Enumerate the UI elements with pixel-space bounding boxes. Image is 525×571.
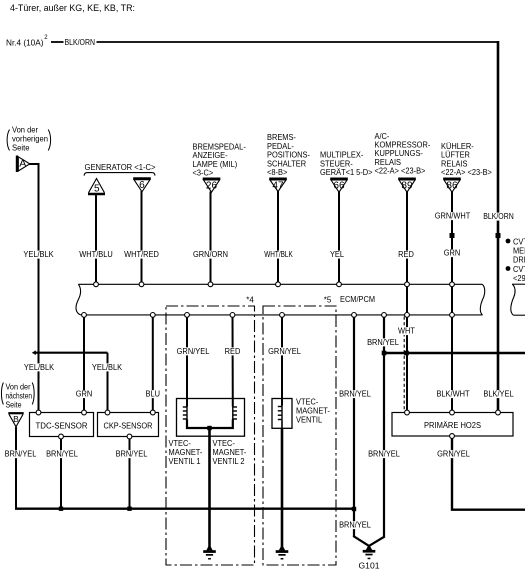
svg-text:WHT/BLK: WHT/BLK [264, 250, 293, 259]
svg-text:*5: *5 [324, 296, 332, 305]
pin ECM bottom BLK/WHT [450, 313, 455, 318]
primary HO2S box [392, 413, 513, 437]
label GRN/YEL (VTEC solenoid) [267, 347, 301, 355]
svg-text:BRN/YEL: BRN/YEL [5, 450, 37, 459]
wire: BRN/YEL thick horizontal to right edge [384, 352, 525, 355]
svg-text:GENERATOR <1-C>: GENERATOR <1-C> [85, 163, 156, 172]
svg-text:RED: RED [225, 347, 241, 356]
wire: YEL/BLK down to TDC-sensor pin [38, 353, 40, 413]
wire: YEL/BLK from flag A down [30, 163, 39, 165]
pin ECM bottom GRN/YEL 2 [280, 313, 285, 318]
wire: BLU to CKP sensor [152, 315, 154, 413]
svg-text:4-Türer, außer KG, KE, KB, TR:: 4-Türer, außer KG, KE, KB, TR: [10, 3, 135, 14]
note: CVT bullet list (clipped at edge) [506, 239, 511, 244]
svg-text:RED: RED [398, 250, 414, 259]
wire: WHT/BLU [95, 194, 97, 284]
svg-text:BRN/YEL: BRN/YEL [368, 450, 400, 459]
wire: valve coils to common ground [187, 420, 233, 429]
svg-text:MEN: MEN [513, 247, 525, 256]
label GRN/YEL (VTEC 1) [176, 347, 210, 355]
note: Von der naechsten Seite [1, 383, 3, 405]
wire: BLK/ORN horizontal to right edge [97, 41, 499, 43]
svg-text:KUPPLUNGS-: KUPPLUNGS- [375, 149, 424, 158]
pin ECM bottom WHT [405, 313, 410, 318]
svg-text:BLU: BLU [146, 390, 161, 399]
svg-text:BREMS-: BREMS- [267, 133, 296, 142]
TDC sensor box [30, 413, 94, 437]
svg-text:Nr.4 (10A): Nr.4 (10A) [6, 38, 44, 47]
pin HO2S BLK/YEL [496, 410, 501, 415]
label YEL/BLK (TDC branch) [23, 363, 55, 371]
ECM/PCM band right break squiggle [480, 284, 484, 315]
svg-text:<8-B>: <8-B> [267, 168, 288, 177]
flag A (from previous page) [16, 156, 18, 173]
wire: RED through band / WHT to HO2S [406, 284, 408, 412]
wire: VTEC valves ground drop [208, 428, 211, 548]
label RED [397, 251, 414, 259]
svg-text:GRN: GRN [444, 249, 461, 258]
label GRN/WHT [434, 212, 471, 220]
label YEL/BLK (CKP branch) [91, 363, 123, 371]
svg-text:POSITIONS-: POSITIONS- [267, 151, 310, 160]
svg-text:KÜHLER-: KÜHLER- [441, 142, 474, 151]
svg-text:TDC-SENSOR: TDC-SENSOR [36, 421, 88, 430]
terminal 6 (generator) [133, 177, 151, 180]
pin ECM top WHT/RED [139, 282, 144, 287]
terminal 89 (A/C compressor clutch relay) [398, 178, 416, 181]
svg-text:*4: *4 [246, 296, 254, 305]
svg-text:VENTIL 1: VENTIL 1 [169, 457, 202, 466]
label GRN/ORN [192, 251, 229, 259]
wire: GRN/YEL to VTEC valve 1 [186, 315, 188, 407]
ECM/PCM band left break squiggle [76, 284, 82, 315]
junction dot CKP ground [127, 507, 131, 511]
svg-text:GRN/WHT: GRN/WHT [435, 212, 471, 221]
in-line connector marker on GRN wire [450, 233, 455, 238]
svg-text:GERÄT<1 5-D>: GERÄT<1 5-D> [320, 168, 373, 177]
label WHT/BLU [79, 251, 114, 259]
svg-text:RELAIS: RELAIS [441, 159, 468, 168]
option box *5 (dash-dot) [263, 306, 336, 565]
ECM/PCM connector band top line [78, 283, 482, 285]
in-line connector marker on BLK/ORN [496, 233, 501, 238]
svg-text:Von der: Von der [6, 382, 31, 391]
wire: GRN to TDC sensor [83, 315, 85, 413]
wire: GRN/ORN [210, 192, 212, 285]
svg-text:vorherigen: vorherigen [12, 135, 48, 144]
svg-text:<22-A> <23-B>: <22-A> <23-B> [441, 168, 492, 177]
wire: BRN/YEL ground bus horizontal [15, 508, 354, 510]
label GRN (above ECM) [443, 249, 461, 257]
junction dot TDC ground [59, 507, 63, 511]
svg-text:PEDAL-: PEDAL- [267, 142, 294, 151]
pin ECM bottom BLU [150, 313, 155, 318]
pin ECM bottom BRN/YEL 2 [382, 313, 387, 318]
svg-text:KOMPRESSOR-: KOMPRESSOR- [375, 141, 431, 150]
label WHT/RED [123, 251, 159, 259]
svg-text:RELAIS: RELAIS [375, 158, 402, 167]
label YEL/BLK (flag A wire) [23, 251, 55, 259]
junction dot WHT x thick horizontal [404, 351, 409, 356]
label BRN/YEL (ground 2 lower) [367, 450, 400, 458]
label BRN/YEL (CKP) [115, 450, 148, 458]
pin ECM bottom GRN/YEL 1 [185, 313, 190, 318]
label BLU [145, 390, 161, 398]
svg-text:BRN/YEL: BRN/YEL [46, 450, 78, 459]
svg-text:BRN/YEL: BRN/YEL [339, 390, 371, 399]
label BRN/YEL (ground 2 upper) [366, 338, 399, 346]
pin ECM bottom RED [230, 313, 235, 318]
ECM/PCM band bottom line [82, 314, 483, 316]
svg-text:GRN/YEL: GRN/YEL [268, 347, 301, 356]
label RED (VTEC 2) [224, 347, 241, 355]
wire: BRN/YEL ECM ground 2 [383, 315, 385, 537]
pin CKP 1 [105, 410, 110, 415]
coil VTEC magnet valve 2 [232, 406, 234, 420]
svg-text:ANZEIGE-: ANZEIGE- [193, 151, 228, 160]
terminal 26 (MIL) [203, 178, 221, 181]
bracket under generator label [84, 173, 155, 176]
junction dot bus to G101 [352, 507, 356, 511]
svg-text:YEL: YEL [330, 250, 345, 259]
svg-text:GRN/ORN: GRN/ORN [193, 250, 228, 259]
pin TDC 2 [82, 410, 87, 415]
svg-text:nächsten: nächsten [6, 391, 33, 400]
pin ECM top YEL [337, 282, 342, 287]
svg-text:MAGNET-: MAGNET- [169, 448, 203, 457]
svg-text:VTEC-: VTEC- [213, 439, 236, 448]
svg-text:LAMPE (MIL): LAMPE (MIL) [193, 160, 238, 169]
svg-text:VENTIL 2: VENTIL 2 [213, 457, 246, 466]
svg-text:WHT/BLU: WHT/BLU [79, 250, 113, 259]
svg-text:STEUER-: STEUER- [320, 159, 353, 168]
wire: VTEC solenoid ground drop [281, 428, 284, 547]
label GRN/YEL (HO2S) [436, 450, 470, 458]
option box *4 (dash-dot) [166, 306, 255, 565]
pin HO2S WHT [405, 410, 410, 415]
svg-text:CVT: CVT [513, 238, 525, 247]
wire: YEL/BLK jog to CKP-sensor [35, 352, 108, 354]
terminal 86 (radiator fan relay) [443, 178, 461, 181]
svg-text:G101: G101 [359, 560, 380, 570]
terminal 47 (brake pedal position switch) [269, 178, 287, 181]
label BRN/YEL (TDC) [45, 450, 78, 458]
svg-text:YEL/BLK: YEL/BLK [24, 363, 55, 372]
pin ECM bottom BRN/YEL 1 [352, 313, 357, 318]
svg-text:BLK/ORN: BLK/ORN [65, 38, 96, 47]
CKP sensor box [98, 413, 159, 437]
label YEL [329, 251, 345, 259]
svg-text:PRIMÄRE HO2S: PRIMÄRE HO2S [424, 421, 481, 430]
wire: YEL [338, 192, 340, 285]
svg-text:LÜFTER: LÜFTER [441, 151, 470, 160]
coil VTEC solenoid valve [281, 406, 283, 421]
svg-text:<22-A> <23-B>: <22-A> <23-B> [375, 167, 426, 176]
label BLK/ORN (vertical wire) [482, 213, 514, 221]
svg-text:WHT: WHT [398, 327, 415, 336]
svg-text:Seite: Seite [12, 144, 30, 153]
svg-text:BLK/WHT: BLK/WHT [436, 390, 469, 399]
svg-text:MULTIPLEX-: MULTIPLEX- [320, 151, 364, 160]
dashed CVT variant line beside WHT wire [403, 317, 405, 412]
svg-text:Von der: Von der [12, 126, 38, 135]
wire: GRN/YEL from HO2S to right edge [452, 438, 525, 510]
coil VTEC magnet valve 1 [186, 406, 188, 420]
pin ECM top WHT/BLK [276, 282, 281, 287]
wire: BRN/YEL from flag B [15, 427, 17, 509]
wire: BRN/YEL from TDC sensor [60, 439, 62, 509]
label BLK/YEL [483, 390, 515, 398]
svg-text:WHT/RED: WHT/RED [124, 250, 159, 259]
svg-text:<29-: <29- [513, 274, 525, 283]
svg-text:GRN/YEL: GRN/YEL [437, 450, 470, 459]
label WHT/BLK [263, 251, 293, 259]
wire: BLK/ORN fuse feed horizontal [51, 41, 64, 43]
svg-text:YEL/BLK: YEL/BLK [92, 363, 123, 372]
pin HO2S BLK/WHT [450, 410, 455, 415]
junction dot BRN/YEL x thick horizontal [382, 351, 387, 356]
ground G101 [366, 547, 372, 551]
wire: RED [406, 192, 408, 285]
pin ECM top GRN [450, 282, 455, 287]
svg-text:VTEC-: VTEC- [169, 439, 192, 448]
svg-text:BRN/YEL: BRN/YEL [367, 338, 399, 347]
ground (VTEC solenoid valve) [279, 547, 285, 551]
svg-text:CVT: CVT [513, 265, 525, 274]
pin ECM top WHT/BLU [94, 282, 99, 287]
svg-text:Seite: Seite [6, 400, 22, 409]
svg-text:MAGNET-: MAGNET- [213, 448, 247, 457]
svg-text:VTEC-: VTEC- [296, 398, 319, 407]
wire: WHT/RED [141, 191, 143, 284]
svg-text:SCHALTER: SCHALTER [267, 159, 306, 168]
pin ECM top GRN/ORN [208, 282, 213, 287]
terminal 66 (multiplex control unit) [330, 178, 348, 181]
svg-text:<3-C>: <3-C> [193, 169, 214, 178]
wire: BRN/YEL ECM ground 1 [353, 315, 355, 537]
flag B (from next page) [8, 412, 23, 414]
svg-text:MAGNET-: MAGNET- [296, 407, 330, 416]
wire: GRN/WHT - GRN down to ECM [451, 192, 453, 413]
VTEC solenoid valve box [272, 399, 292, 429]
svg-text:DRE: DRE [513, 256, 525, 265]
wire: YEL/BLK down to CKP-sensor pin [107, 353, 109, 413]
svg-text:YEL/BLK: YEL/BLK [23, 250, 54, 259]
pin TDC 1 [36, 410, 41, 415]
svg-text:BLK/YEL: BLK/YEL [483, 390, 514, 399]
wire: BRN/YEL from CKP sensor [129, 439, 131, 509]
label GRN (TDC) [75, 390, 93, 398]
svg-text:GRN: GRN [76, 390, 93, 399]
wire: BLK/ORN vertical right side [497, 41, 500, 413]
label WHT [397, 327, 416, 335]
pin HO2S GRN/YEL [450, 434, 455, 439]
pin ECM top RED [405, 282, 410, 287]
svg-text:BRN/YEL: BRN/YEL [339, 521, 371, 530]
wire: GRN/YEL to VTEC solenoid valve [281, 315, 283, 406]
pin TDC ground [59, 434, 64, 439]
svg-text:BLK/ORN: BLK/ORN [483, 212, 514, 221]
svg-text:VENTIL: VENTIL [296, 416, 323, 425]
pin CKP ground [127, 434, 132, 439]
wire: RED to VTEC valve 2 [232, 315, 234, 407]
svg-text:BREMSPEDAL-: BREMSPEDAL- [193, 142, 247, 151]
junction dot valve common [207, 426, 211, 430]
svg-text:BRN/YEL: BRN/YEL [116, 450, 148, 459]
svg-text:GRN/YEL: GRN/YEL [177, 347, 210, 356]
svg-text:CKP-SENSOR: CKP-SENSOR [104, 421, 153, 430]
pin ECM bottom GRN [82, 313, 87, 318]
VTEC magnet valve 1+2 outer box [177, 399, 245, 437]
svg-text:ECM/PCM: ECM/PCM [340, 295, 375, 304]
label BRN/YEL (ground 1 lower) [338, 521, 371, 529]
label BRN/YEL (flag B) [4, 450, 37, 458]
ground (VTEC valves 1/2) [206, 547, 212, 551]
note: Von der vorherigen Seite [7, 130, 9, 151]
pin CKP 2 [150, 410, 155, 415]
label BRN/YEL (ground 1 upper) [338, 390, 371, 398]
ECM/PCM band continuation right piece [511, 284, 515, 315]
label BLK/WHT [436, 390, 471, 398]
wire: WHT/BLK [277, 191, 279, 284]
